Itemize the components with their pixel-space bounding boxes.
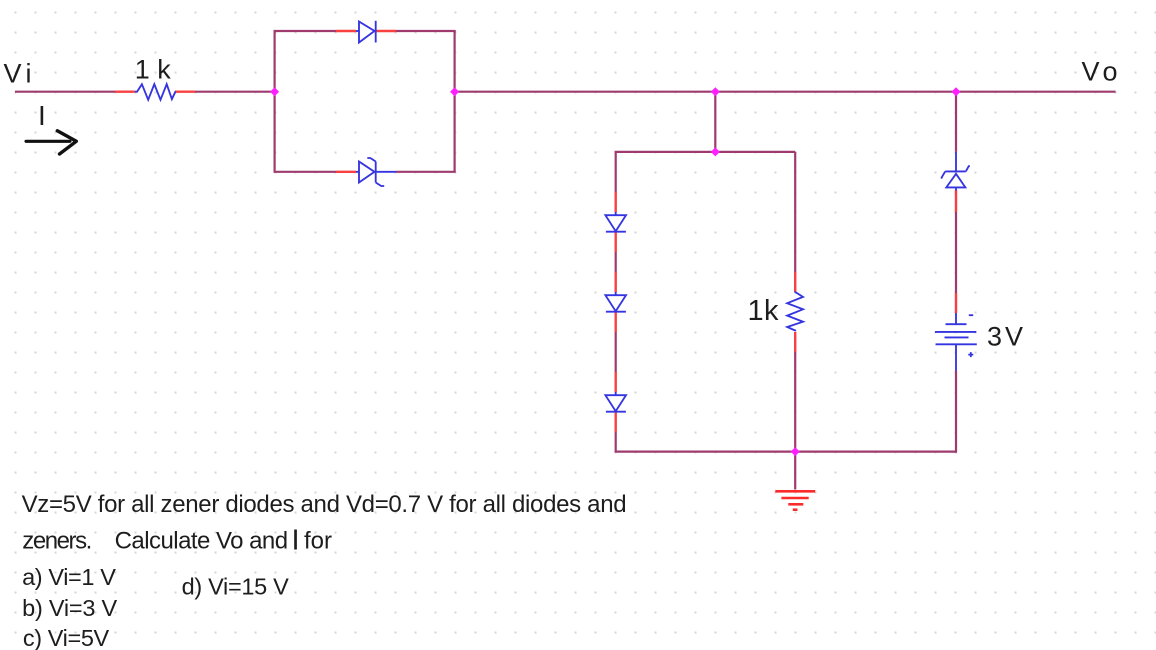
svg-text:Calculate Vo and: Calculate Vo and <box>115 528 289 555</box>
svg-text:I: I <box>38 100 46 131</box>
svg-text:c) Vi=5V: c) Vi=5V <box>23 625 110 650</box>
svg-text:b) Vi=3 V: b) Vi=3 V <box>22 595 117 621</box>
svg-text:I: I <box>292 525 300 557</box>
svg-text:Vi: Vi <box>4 59 32 89</box>
svg-text:3V: 3V <box>987 322 1023 352</box>
svg-text:zeners.: zeners. <box>22 528 92 555</box>
svg-text:a) Vi=1 V: a) Vi=1 V <box>22 564 116 590</box>
svg-text:Vz=5V for all zener diodes and: Vz=5V for all zener diodes and Vd=0.7 V … <box>22 491 627 518</box>
svg-text:d) Vi=15 V: d) Vi=15 V <box>182 573 290 599</box>
svg-text:for: for <box>304 528 332 555</box>
svg-text:1k: 1k <box>748 295 780 327</box>
